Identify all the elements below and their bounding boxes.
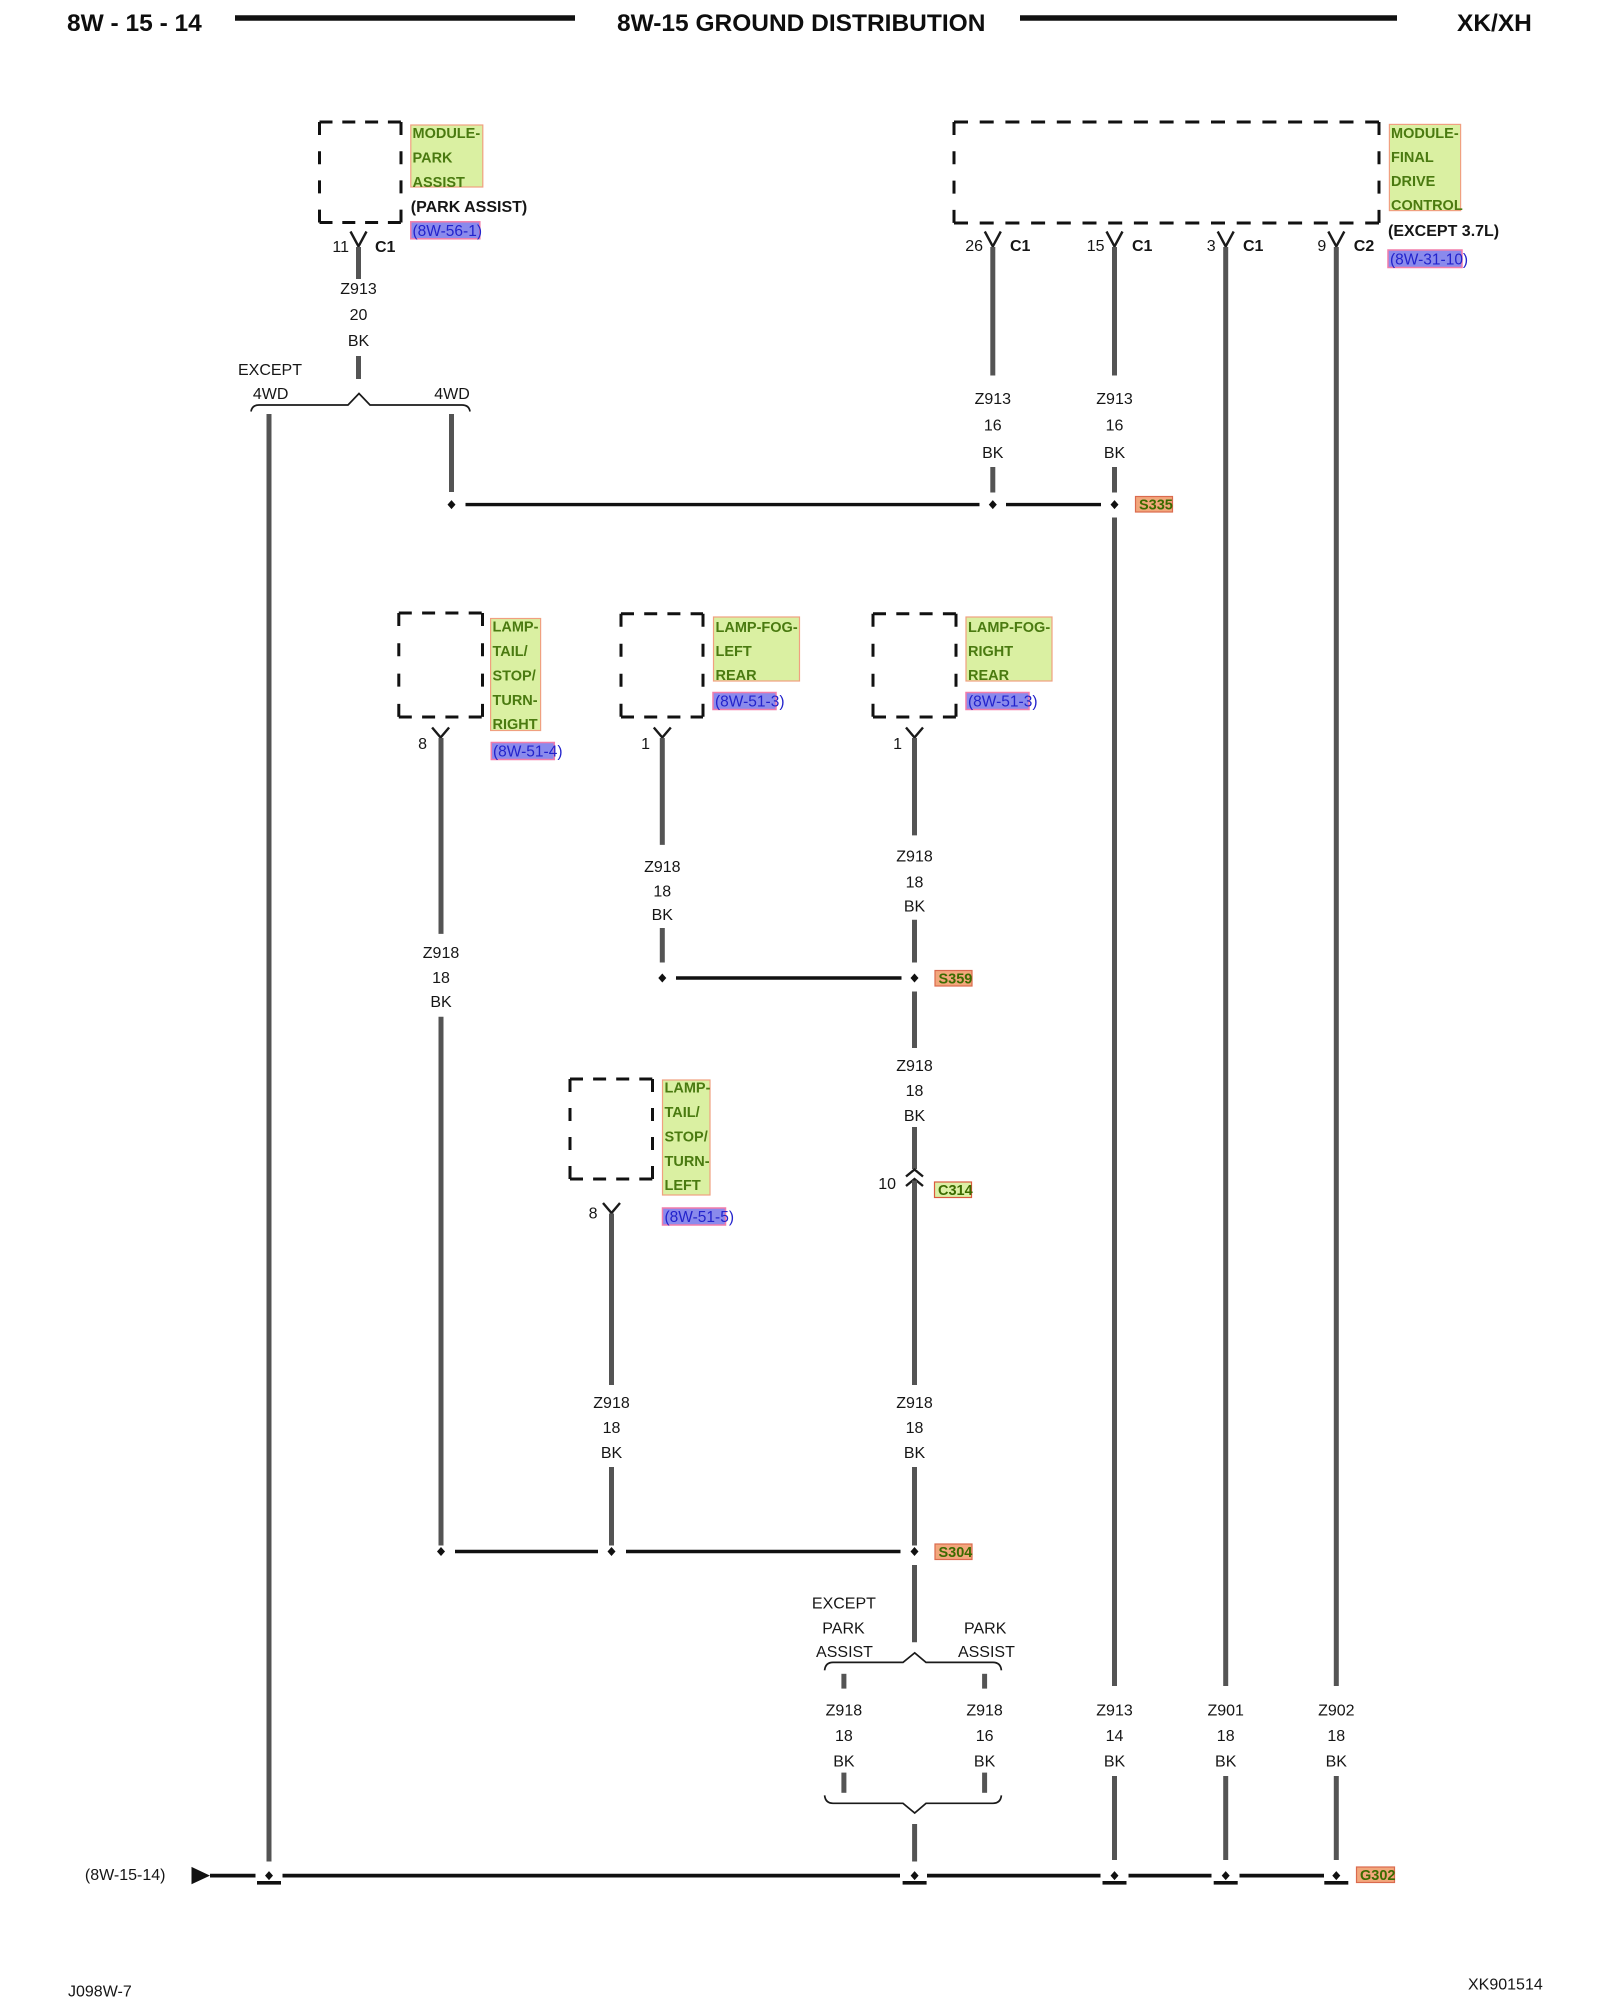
svg-text:CONTROL: CONTROL [1391,198,1463,214]
junction dot at L3 wire [911,974,919,983]
svg-text:18: 18 [603,1420,621,1437]
ground symbol bar (except 4WD wire) [257,1881,281,1885]
wire stub below labels (right branch) [982,1773,987,1793]
svg-text:BK: BK [652,907,674,924]
svg-text:STOP/: STOP/ [665,1129,708,1145]
header left rule [235,15,575,21]
wire pin15 lower stub to G302 [1112,1776,1117,1860]
svg-text:C1: C1 [1243,238,1264,255]
wire label Z918 18 BK (L4) [593,1395,630,1462]
wire pin26 stub to S335 [990,467,995,493]
svg-text:BK: BK [904,899,926,916]
svg-text:8: 8 [418,736,427,753]
wire L4 run [609,1214,614,1386]
wire stub to S304 (right) [912,1467,917,1546]
wire stub park-assist branch [982,1674,987,1689]
svg-text:S359: S359 [939,972,973,988]
svg-text:TURN-: TURN- [493,693,538,709]
svg-text:TAIL/: TAIL/ [665,1105,700,1121]
svg-text:BK: BK [904,1108,926,1125]
wire Z913 20 BK stub below U1 [356,247,361,279]
lamp L1 TAIL/STOP/TURN-RIGHT dashed box [399,613,483,717]
svg-text:18: 18 [1217,1728,1235,1745]
wire merged branch to G302 [912,1824,917,1862]
wire L1 lower run to S304 [439,1017,444,1546]
svg-text:BK: BK [1326,1753,1348,1770]
header right rule [1020,15,1397,21]
module U1 reference (8W-56-1) [411,222,482,240]
wire stub above C314 [912,1127,917,1169]
ground junction dot (park assist merge) [911,1871,919,1880]
svg-text:C1: C1 [1132,238,1153,255]
lamp L2 label LAMP-FOG-LEFT REAR [714,617,800,684]
svg-text:BK: BK [974,1753,996,1770]
off-page arrow [192,1867,211,1884]
svg-text:Z918: Z918 [826,1702,863,1719]
svg-text:16: 16 [976,1728,994,1745]
ground junction dot (pin15 wire) [1111,1871,1119,1880]
connector pin 8 of L1 [418,728,449,754]
junction dot at L1 wire [437,1547,445,1556]
lamp L1 reference (8W-51-4) [491,743,562,761]
svg-text:1: 1 [893,736,902,753]
wire below C314 [912,1181,917,1386]
svg-text:10: 10 [878,1176,896,1193]
svg-text:TURN-: TURN- [665,1154,710,1170]
svg-text:11: 11 [332,239,349,256]
ground tag G302 [1357,1867,1396,1884]
svg-text:26: 26 [965,238,983,255]
svg-text:18: 18 [432,970,450,987]
svg-text:PARK: PARK [822,1621,865,1638]
wire label Z913 16 BK (pin 26) [975,391,1012,462]
svg-text:(8W-51-3): (8W-51-3) [715,694,784,711]
connector tag C314 [935,1182,973,1199]
wire label Z913 16 BK (pin 15) [1096,391,1133,462]
svg-text:C1: C1 [1010,238,1031,255]
connector pin 1 of L3 [893,728,923,754]
wire L3 stub to S359 [912,920,917,963]
svg-text:S335: S335 [1139,498,1173,514]
svg-text:8W - 15 - 14: 8W - 15 - 14 [67,10,202,37]
svg-text:LEFT: LEFT [665,1178,701,1194]
lamp L2 FOG-LEFT REAR dashed box [621,614,703,717]
lamp L2 reference (8W-51-3) [713,693,784,711]
option split brace 4WD [251,394,470,412]
splice tag S359 [935,971,972,988]
svg-text:C1: C1 [375,239,396,256]
wire pin3 long run to G302 [1223,247,1228,1686]
svg-text:Z913: Z913 [340,281,377,298]
svg-text:8W-15 GROUND DISTRIBUTION: 8W-15 GROUND DISTRIBUTION [617,10,985,37]
svg-text:Z913: Z913 [975,391,1012,408]
module U1 label MODULE-PARK ASSIST [411,125,483,191]
svg-text:MODULE-: MODULE- [413,126,481,142]
svg-text:LAMP-FOG-: LAMP-FOG- [716,620,798,636]
wire pin9 lower stub to G302 [1334,1776,1339,1860]
wire label Z918 18 BK (above C314) [896,1058,933,1125]
svg-text:18: 18 [835,1728,853,1745]
connector pin 1 of L2 [641,728,671,754]
wire pin15 upper run [1112,247,1117,376]
svg-text:(8W-15-14): (8W-15-14) [85,1867,166,1884]
wire label Z902 18 BK (pin 9 run) [1318,1702,1355,1770]
svg-text:RIGHT: RIGHT [493,717,538,733]
svg-text:20: 20 [350,307,368,324]
module U2 reference (8W-31-10) [1388,250,1468,269]
svg-text:LEFT: LEFT [716,644,752,660]
svg-text:TAIL/: TAIL/ [493,644,528,660]
lamp L1 label LAMP-TAIL/STOP/TURN-RIGHT [491,619,541,734]
wire pin26 upper run [990,247,995,376]
svg-text:C314: C314 [938,1183,973,1199]
svg-text:PARK: PARK [964,1621,1007,1638]
wire label Z913 14 BK (pin 15 run) [1096,1702,1133,1770]
wire pin15 stub to S335 [1112,467,1117,493]
svg-text:BK: BK [833,1753,855,1770]
junction dot at pin15 wire [1111,500,1119,509]
svg-text:EXCEPT: EXCEPT [812,1596,876,1613]
option label EXCEPT PARK ASSIST [812,1596,876,1662]
junction dot at col F wire [911,1547,919,1556]
svg-text:BK: BK [1104,445,1126,462]
junction dot at L4 wire [608,1547,616,1556]
wire label Z918 16 BK (park assist) [966,1702,1003,1770]
wire L3 upper run [912,738,917,835]
option split brace PARK ASSIST [825,1653,1002,1671]
svg-text:18: 18 [906,1420,924,1437]
wire below S304 [912,1565,917,1642]
ground symbol bar (pin15 wire) [1103,1881,1127,1885]
connector pin 3 C1 of U2 [1207,232,1264,256]
wire label Z918 18 BK (below C314) [896,1395,933,1462]
svg-text:Z913: Z913 [1096,391,1133,408]
svg-text:G302: G302 [1360,1868,1395,1884]
svg-text:Z913: Z913 [1096,1702,1133,1719]
svg-text:ASSIST: ASSIST [816,1644,873,1661]
wire label Z918 18 BK (except park assist) [826,1702,863,1770]
svg-text:4WD: 4WD [434,386,470,403]
wire pin3 lower stub to G302 [1223,1776,1228,1860]
svg-text:(PARK ASSIST): (PARK ASSIST) [411,199,527,216]
svg-text:3: 3 [1207,238,1216,255]
junction dot at pin26 wire [989,500,997,509]
svg-text:9: 9 [1317,238,1326,255]
splice tag S335 [1136,497,1173,514]
connector pin 15 C1 of U2 [1087,232,1153,256]
svg-text:C2: C2 [1354,238,1375,255]
svg-text:18: 18 [1327,1728,1345,1745]
svg-text:S304: S304 [939,1545,973,1561]
svg-text:Z918: Z918 [966,1702,1003,1719]
wire label Z918 18 BK (L2) [644,859,681,924]
svg-text:Z918: Z918 [896,849,933,866]
splice S335 horizontal bus [466,503,980,506]
connector pin 9 C2 of U2 [1317,232,1374,256]
splice tag S304 [935,1544,972,1561]
splice S359 horizontal bus [676,976,902,979]
svg-text:RIGHT: RIGHT [968,644,1013,660]
wire L2 upper run [660,738,665,845]
wire label Z913 20 BK [340,281,377,350]
svg-text:Z918: Z918 [423,945,460,962]
ground symbol bar (pin9 wire) [1324,1881,1348,1885]
svg-text:BK: BK [601,1445,623,1462]
svg-text:16: 16 [984,418,1002,435]
svg-text:(8W-56-1): (8W-56-1) [413,223,482,240]
wire stub below labels (left branch) [841,1773,846,1793]
svg-text:18: 18 [653,884,671,901]
lamp L4 TAIL/STOP/TURN-LEFT dashed box [570,1079,653,1179]
ground symbol bar (pin3 wire) [1214,1881,1238,1885]
ground symbol bar (park assist merge) [903,1881,927,1885]
svg-text:Z918: Z918 [593,1395,630,1412]
svg-text:ASSIST: ASSIST [413,175,466,191]
svg-text:XK901514: XK901514 [1468,1977,1543,1994]
wire L4 stub to S304 [609,1467,614,1546]
svg-text:STOP/: STOP/ [493,668,536,684]
wire below S359 [912,992,917,1049]
svg-text:BK: BK [1104,1753,1126,1770]
svg-text:ASSIST: ASSIST [958,1644,1015,1661]
splice S304 horizontal bus [455,1550,598,1553]
svg-text:LAMP-: LAMP- [665,1081,711,1097]
wire 4WD branch down to S335 [449,414,454,492]
svg-text:Z918: Z918 [896,1395,933,1412]
module U2 FINAL DRIVE CONTROL dashed box [954,122,1379,223]
svg-text:LAMP-FOG-: LAMP-FOG- [968,620,1050,636]
svg-text:18: 18 [906,875,924,892]
svg-text:14: 14 [1106,1728,1124,1745]
svg-text:(8W-51-4): (8W-51-4) [493,744,562,761]
svg-text:DRIVE: DRIVE [1391,174,1436,190]
lamp L3 reference (8W-51-3) [966,693,1037,711]
svg-text:BK: BK [904,1445,926,1462]
svg-text:(EXCEPT 3.7L): (EXCEPT 3.7L) [1388,223,1499,240]
connector pin 8 of L4 [589,1203,620,1223]
svg-text:XK/XH: XK/XH [1457,10,1532,37]
svg-text:8: 8 [589,1206,598,1223]
lamp L3 FOG-RIGHT REAR dashed box [873,614,956,717]
lamp L3 label LAMP-FOG-RIGHT REAR [966,617,1052,684]
junction dot at L2 wire [658,974,666,983]
svg-text:1: 1 [641,736,650,753]
ground junction dot (pin3 wire) [1222,1871,1230,1880]
wire L2 stub to S359 [660,928,665,963]
ground bus G302 segments [210,1874,1324,1878]
svg-text:BK: BK [348,333,370,350]
svg-text:BK: BK [1215,1753,1237,1770]
svg-text:Z918: Z918 [896,1058,933,1075]
junction dot at 4WD branch [448,500,456,509]
wire L1 upper run [439,738,444,934]
svg-text:15: 15 [1087,238,1105,255]
wire except-4WD branch down to G302 [267,414,272,1862]
svg-text:PARK: PARK [413,151,454,167]
svg-text:BK: BK [430,994,452,1011]
ground junction dot (except 4WD wire) [265,1871,273,1880]
svg-text:18: 18 [906,1083,924,1100]
lamp L4 reference (8W-51-5) [663,1208,734,1226]
svg-text:Z918: Z918 [644,859,681,876]
svg-text:LAMP-: LAMP- [493,620,539,636]
svg-text:REAR: REAR [716,668,758,684]
inline connector C314 pin 10 chevrons [906,1170,923,1187]
svg-text:4WD: 4WD [253,386,289,403]
wire stub above 4WD split [356,356,361,379]
option label PARK ASSIST [958,1621,1015,1662]
svg-text:J098W-7: J098W-7 [68,1984,132,2000]
svg-text:BK: BK [982,445,1004,462]
lamp L4 label LAMP-TAIL/STOP/TURN-LEFT [663,1080,711,1195]
svg-text:FINAL: FINAL [1391,150,1434,166]
ground junction dot (pin9 wire) [1332,1871,1340,1880]
svg-text:(8W-51-3): (8W-51-3) [968,694,1037,711]
wire label Z901 18 BK (pin 3 run) [1207,1702,1244,1770]
svg-text:Z902: Z902 [1318,1702,1355,1719]
svg-text:(8W-51-5): (8W-51-5) [665,1209,734,1226]
svg-text:16: 16 [1106,418,1124,435]
module U2 label MODULE-FINAL DRIVE CONTROL [1389,124,1462,214]
svg-text:Z901: Z901 [1207,1702,1244,1719]
svg-text:MODULE-: MODULE- [1391,126,1459,142]
option merge brace [825,1795,1002,1813]
module U1 PARK ASSIST dashed box [320,122,402,223]
wire label Z918 18 BK (L1) [423,945,460,1011]
wire stub except-park-assist branch [841,1674,846,1689]
svg-text:(8W-31-10): (8W-31-10) [1390,252,1468,269]
wire pin15 run below S335 [1112,518,1117,1687]
svg-text:EXCEPT: EXCEPT [238,362,302,379]
wire pin9 long run to G302 [1334,247,1339,1686]
svg-text:REAR: REAR [968,668,1010,684]
connector pin 11 C1 of U1 [332,232,395,257]
wire label Z918 18 BK (L3) [896,849,933,916]
connector pin 26 C1 of U2 [965,232,1030,256]
